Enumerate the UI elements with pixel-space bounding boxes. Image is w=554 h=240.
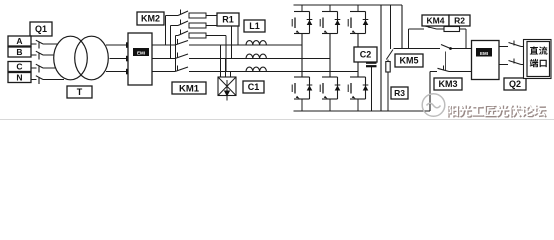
IGBT Q low 1 with diode (292, 77, 312, 99)
transformer T secondary winding (75, 36, 109, 80)
svg-text:R2: R2 (454, 16, 465, 26)
svg-text:T: T (77, 87, 83, 97)
wire DC- line (430, 71, 472, 73)
svg-text:EMI: EMI (480, 51, 488, 56)
wire phase A from terminal A (31, 43, 60, 45)
wire phase B from terminal B (31, 54, 57, 56)
inductor L1 coil 1 (246, 41, 266, 45)
contactor KM1 pole 3 (175, 66, 188, 72)
DC- rail (294, 110, 431, 112)
resistor R3 element (386, 62, 390, 73)
EMI filter box (DC side) (472, 41, 500, 80)
contactor KM5 main contact (441, 45, 452, 50)
label R2 (449, 15, 470, 26)
terminal block phase 3 (126, 69, 132, 75)
svg-text:Q1: Q1 (35, 24, 47, 34)
wire phase 1 bus (152, 44, 302, 46)
terminal B (8, 47, 31, 57)
DC+ rail (294, 4, 403, 6)
wire phase 2 bus (152, 58, 330, 60)
contactor KM1 pole 1 (175, 39, 188, 45)
contactor KM5 discharge contact (386, 50, 393, 60)
wire KM2 branch riser 2 (170, 26, 172, 59)
breaker Q1 pole A (36, 40, 43, 48)
wire phase 3 bus (152, 71, 358, 73)
wire DC- rise (429, 72, 431, 112)
wire C1 drop 2 (225, 59, 227, 78)
wire bridge leg 3 mid (357, 34, 359, 78)
wire C1 drop 1 (220, 45, 222, 77)
wire DC+ output (499, 46, 527, 48)
svg-text:R3: R3 (394, 88, 405, 98)
transformer T primary winding (54, 36, 88, 80)
label T (67, 86, 92, 98)
wire KM2 branch riser 1 (165, 16, 167, 46)
wire bridge leg 1 bottom (301, 99, 303, 111)
wire DC+ main line (394, 48, 472, 50)
wire phase C from terminal C (31, 67, 58, 69)
wire DC- output (499, 64, 527, 66)
svg-text:KM5: KM5 (399, 56, 418, 66)
label KM4 (422, 15, 449, 26)
switch Q2 pole 2 (509, 59, 522, 65)
wire secondary phase 3 (106, 71, 127, 73)
contactor KM2 pole 2 (178, 20, 188, 26)
capacitor C2 branch wire bottom (371, 67, 373, 111)
label Q1 (30, 22, 52, 36)
inductor L1 coil 3 (246, 67, 266, 71)
label Q2 (504, 78, 526, 90)
switch Q2 pole 1 (509, 41, 522, 47)
label KM5 (395, 54, 423, 67)
label L1 (244, 20, 265, 32)
label KM2 (137, 12, 164, 25)
terminal N (8, 73, 31, 83)
svg-text:R1: R1 (222, 15, 234, 25)
IGBT Q up 3 with diode (348, 12, 368, 34)
breaker Q1 pole C (36, 64, 43, 72)
capacitor C2 plates (366, 63, 377, 66)
wire KM2 branch riser 3 (175, 36, 177, 72)
label KM1 (172, 82, 206, 94)
wire KM2 branch line 2 (171, 25, 179, 27)
wire R1 out 2 (206, 26, 232, 59)
wire bridge leg 2 bottom (329, 99, 331, 111)
wire R1 out 1 (206, 16, 238, 46)
label KM3 (434, 78, 462, 90)
contactor KM3 contact (438, 66, 450, 72)
IGBT Q up 2 with diode (320, 12, 340, 34)
discharge branch riser (390, 5, 392, 49)
wire neutral N (31, 79, 64, 81)
resistor R2 element (444, 27, 460, 32)
terminal block phase 1 (126, 42, 132, 48)
wire bridge leg 3 bottom (357, 99, 359, 111)
svg-text:EMI: EMI (137, 51, 145, 56)
capacitor C2 branch wire top (380, 5, 382, 111)
label C2 (354, 47, 377, 62)
svg-text:Q2: Q2 (509, 79, 521, 89)
svg-text:KM4: KM4 (427, 16, 445, 26)
wire precharge branch (409, 29, 467, 49)
resistor R3 wire (387, 60, 389, 112)
svg-text:L1: L1 (249, 21, 260, 31)
contactor KM1 pole 2 (175, 53, 188, 59)
watermark logo and text (422, 94, 547, 118)
svg-text:C: C (16, 62, 22, 72)
terminal A (8, 36, 31, 46)
IGBT Q low 2 with diode (320, 77, 340, 99)
label R3 (391, 87, 408, 99)
svg-text:N: N (16, 73, 22, 83)
IGBT Q low 3 with diode (348, 77, 368, 99)
wire drop to IGBT Q up 1 (301, 5, 303, 12)
wire secondary phase 1 (106, 44, 127, 46)
svg-text:A: A (16, 36, 22, 46)
wire drop to IGBT Q up 3 (357, 5, 359, 12)
IGBT Q up 1 with diode (292, 12, 312, 34)
resistor R1 element 3 (189, 33, 206, 38)
contactor KM4 contact (424, 23, 437, 29)
inductor L1 coil 2 (246, 54, 266, 58)
wire bridge leg 2 mid (329, 34, 331, 78)
label C1 (243, 81, 264, 93)
breaker Q1 pole N (36, 76, 43, 84)
resistor R1 element 1 (189, 13, 206, 18)
svg-text:KM1: KM1 (179, 83, 200, 94)
svg-text:KM2: KM2 (141, 14, 160, 24)
wire R1 out 3 (206, 36, 226, 72)
breaker Q1 pole B (36, 51, 43, 59)
terminal block phase 2 (126, 56, 132, 62)
bottom page edge (0, 119, 554, 121)
contactor KM2 pole 1 (178, 10, 188, 16)
EMI filter box (AC side) (128, 33, 152, 85)
wire KM2 branch line 3 (176, 35, 179, 37)
resistor R1 element 2 (189, 23, 206, 28)
label R1 (217, 13, 239, 26)
wire drop to IGBT Q up 2 (329, 5, 331, 12)
wire DC+ drop (401, 5, 403, 49)
svg-text:B: B (16, 47, 22, 57)
wire KM2 branch line 1 (166, 15, 179, 17)
svg-text:C2: C2 (360, 50, 372, 60)
wire secondary phase 2 (110, 58, 128, 60)
wire C1 drop 3 (230, 72, 232, 78)
svg-text:C1: C1 (248, 82, 260, 92)
wire bridge leg 1 mid (301, 34, 303, 78)
svg-text:KM3: KM3 (438, 79, 457, 89)
terminal C (8, 62, 31, 72)
mechanical link KM5-KM3 (445, 52, 447, 71)
contactor KM2 pole 3 (178, 30, 188, 36)
surge filter C1 symbol (218, 77, 236, 101)
DC port box 直流端口 (524, 40, 552, 79)
